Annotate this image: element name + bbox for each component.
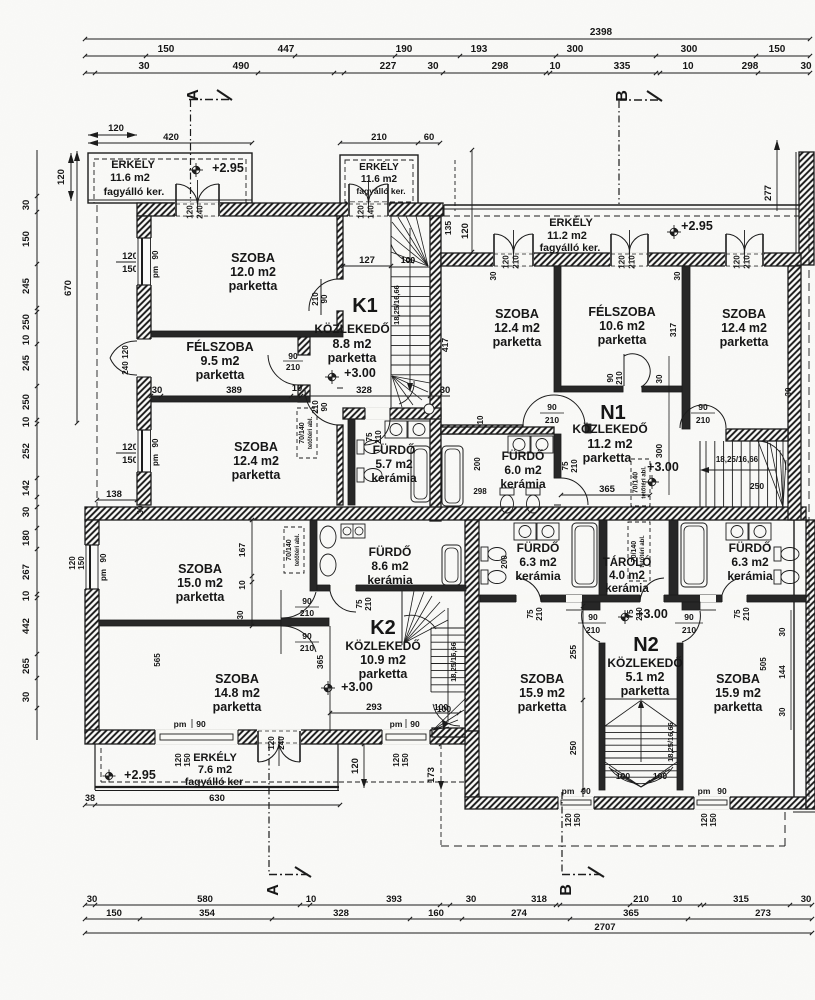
svg-text:pm: pm bbox=[390, 719, 403, 729]
window K2 left bbox=[155, 729, 238, 745]
party wall K1/K2 horizontal band bbox=[85, 507, 806, 520]
window N2 left bbox=[558, 796, 594, 810]
svg-text:14.8 m2: 14.8 m2 bbox=[214, 686, 260, 700]
svg-text:60: 60 bbox=[424, 132, 435, 143]
section line B-B (bottom) bbox=[561, 792, 563, 874]
svg-text:FÜRDŐ: FÜRDŐ bbox=[729, 540, 772, 555]
dim 277 right of balcony3 bbox=[776, 140, 778, 211]
svg-text:328: 328 bbox=[333, 908, 349, 919]
svg-text:138: 138 bbox=[106, 489, 122, 500]
svg-text:210: 210 bbox=[371, 132, 387, 143]
svg-text:2707: 2707 bbox=[594, 922, 615, 933]
svg-text:ERKÉLY: ERKÉLY bbox=[549, 216, 593, 229]
svg-text:kerámia: kerámia bbox=[371, 471, 417, 485]
svg-text:30: 30 bbox=[87, 894, 98, 905]
svg-text:pm: pm bbox=[99, 569, 108, 581]
svg-text:298: 298 bbox=[742, 61, 759, 72]
svg-text:505: 505 bbox=[759, 657, 768, 671]
svg-text:210: 210 bbox=[696, 415, 710, 425]
french door felszoba (left wall) bbox=[136, 339, 152, 377]
svg-text:fagyálló ker.: fagyálló ker. bbox=[540, 242, 601, 254]
svg-text:670: 670 bbox=[63, 280, 74, 296]
svg-text:90: 90 bbox=[717, 786, 727, 796]
roof window 70/140 bbox=[631, 459, 650, 506]
svg-text:TÁROLÓ: TÁROLÓ bbox=[603, 556, 652, 569]
svg-text:75: 75 bbox=[561, 461, 570, 470]
svg-text:90: 90 bbox=[302, 631, 312, 641]
K2 bottom exterior wall bbox=[85, 730, 466, 744]
svg-text:277: 277 bbox=[763, 185, 774, 201]
stair K2 bbox=[401, 591, 403, 645]
svg-text:210: 210 bbox=[364, 597, 373, 611]
svg-text:ERKÉLY: ERKÉLY bbox=[111, 158, 155, 171]
svg-text:210: 210 bbox=[742, 607, 751, 621]
svg-text:30: 30 bbox=[784, 387, 793, 396]
window dim 120/150 (szoba 12.0) bbox=[116, 261, 152, 263]
svg-text:SZOBA: SZOBA bbox=[178, 562, 222, 576]
svg-text:210: 210 bbox=[628, 255, 637, 269]
window szoba 12.4 K1 bbox=[136, 430, 152, 472]
svg-text:120: 120 bbox=[502, 255, 511, 269]
K1 top wall opening: balcony door 2 bbox=[348, 202, 389, 217]
svg-text:30: 30 bbox=[236, 610, 245, 619]
svg-text:240: 240 bbox=[277, 736, 286, 750]
svg-text:kerámia: kerámia bbox=[500, 477, 546, 491]
double washbasin bbox=[726, 523, 748, 540]
top dimension chain bbox=[85, 38, 810, 40]
svg-text:30: 30 bbox=[21, 200, 32, 211]
furdo 8.6 bottom wall bbox=[317, 585, 466, 591]
bathtub bbox=[411, 446, 430, 502]
bathtub bbox=[442, 446, 463, 506]
svg-text:120: 120 bbox=[700, 813, 709, 827]
K2 left exterior wall bbox=[85, 520, 99, 733]
svg-text:12.0 m2: 12.0 m2 bbox=[230, 265, 276, 279]
svg-text:252: 252 bbox=[21, 443, 32, 459]
svg-text:90: 90 bbox=[410, 719, 420, 729]
toilet bbox=[774, 547, 781, 561]
svg-text:100: 100 bbox=[653, 771, 667, 781]
double line bottom right bbox=[806, 808, 815, 810]
svg-text:250: 250 bbox=[568, 741, 578, 755]
svg-text:90: 90 bbox=[547, 402, 557, 412]
svg-text:210: 210 bbox=[512, 255, 521, 269]
felszoba east wall bbox=[298, 337, 310, 355]
hall K1 west wall (upper) bbox=[337, 216, 343, 279]
svg-text:120: 120 bbox=[68, 556, 77, 570]
left dimension chain bbox=[36, 150, 38, 740]
window szoba 12.0 bbox=[136, 238, 152, 285]
svg-text:+3.00: +3.00 bbox=[647, 460, 679, 474]
svg-text:+2.95: +2.95 bbox=[124, 768, 156, 782]
svg-text:150: 150 bbox=[709, 813, 718, 827]
svg-text:A: A bbox=[265, 884, 282, 896]
svg-text:B: B bbox=[614, 90, 631, 102]
wall szoba12.4L / felszoba N1 bbox=[554, 266, 561, 392]
door szoba 12.4 (opening in line x337) bbox=[337, 387, 343, 389]
door opening to furdo 5.7 bbox=[365, 407, 390, 420]
dim 173 dashed bbox=[440, 744, 442, 846]
door furdo 6.3 R bbox=[722, 594, 747, 603]
door tarolo bbox=[640, 594, 664, 603]
dim 420 over balcony1 bbox=[88, 142, 252, 144]
svg-text:10: 10 bbox=[672, 894, 683, 905]
svg-text:+3.00: +3.00 bbox=[636, 607, 668, 621]
svg-text:FÜRDŐ: FÜRDŐ bbox=[369, 544, 412, 559]
svg-text:8.8 m2: 8.8 m2 bbox=[333, 337, 372, 351]
dim row K2 (293) bbox=[330, 712, 459, 714]
svg-text:tetőtéri abl.: tetőtéri abl. bbox=[295, 534, 301, 567]
svg-text:120: 120 bbox=[267, 736, 276, 750]
french door opening N1 balcony bbox=[493, 252, 534, 267]
svg-text:10.9 m2: 10.9 m2 bbox=[360, 653, 406, 667]
svg-text:389: 389 bbox=[226, 385, 242, 396]
dim 120 inside balcony right bbox=[363, 744, 365, 788]
svg-text:210: 210 bbox=[682, 625, 696, 635]
svg-text:335: 335 bbox=[614, 61, 631, 72]
svg-text:9.5 m2: 9.5 m2 bbox=[201, 354, 240, 368]
svg-text:90: 90 bbox=[684, 612, 694, 622]
svg-text:245: 245 bbox=[21, 354, 32, 371]
svg-text:150: 150 bbox=[106, 908, 122, 919]
svg-text:pm: pm bbox=[698, 786, 711, 796]
toilet bbox=[481, 570, 488, 584]
svg-text:parketta: parketta bbox=[598, 333, 648, 347]
bottom dimension chain bbox=[85, 904, 812, 906]
svg-text:parketta: parketta bbox=[232, 468, 282, 482]
svg-text:6.3 m2: 6.3 m2 bbox=[731, 555, 769, 569]
dims 135 / 120 left of balcony3 bbox=[454, 160, 456, 211]
svg-text:210: 210 bbox=[586, 625, 600, 635]
svg-text:10: 10 bbox=[21, 591, 32, 602]
svg-text:30: 30 bbox=[673, 271, 682, 280]
svg-text:150: 150 bbox=[401, 753, 410, 767]
svg-text:FÜRDŐ: FÜRDŐ bbox=[373, 442, 416, 457]
svg-text:318: 318 bbox=[531, 894, 547, 905]
svg-text:kerámia: kerámia bbox=[367, 573, 413, 587]
svg-text:10: 10 bbox=[292, 383, 303, 394]
balcony erkely 11.6 (top-left) outer edge bbox=[88, 153, 252, 203]
window K2 right bbox=[382, 729, 430, 745]
svg-text:273: 273 bbox=[755, 908, 771, 919]
dim 138 bbox=[97, 499, 137, 501]
svg-text:parketta: parketta bbox=[196, 368, 246, 382]
vertical dims right rooms bbox=[790, 610, 792, 730]
svg-text:142: 142 bbox=[21, 480, 32, 496]
svg-text:210: 210 bbox=[311, 400, 320, 414]
section line A-A (bottom) bbox=[268, 744, 270, 874]
svg-text:75: 75 bbox=[355, 599, 364, 608]
svg-text:SZOBA: SZOBA bbox=[231, 251, 275, 265]
svg-text:SZOBA: SZOBA bbox=[495, 307, 539, 321]
svg-text:2398: 2398 bbox=[590, 27, 613, 38]
svg-text:90: 90 bbox=[698, 402, 708, 412]
stair K1 bbox=[390, 216, 392, 407]
svg-text:30: 30 bbox=[778, 627, 787, 636]
svg-text:SZOBA: SZOBA bbox=[234, 440, 278, 454]
svg-text:pm: pm bbox=[151, 454, 160, 466]
svg-text:167: 167 bbox=[237, 543, 247, 557]
svg-text:300: 300 bbox=[567, 44, 584, 55]
svg-text:328: 328 bbox=[356, 385, 372, 396]
svg-text:5.1 m2: 5.1 m2 bbox=[626, 670, 665, 684]
svg-text:190: 190 bbox=[396, 44, 413, 55]
svg-text:580: 580 bbox=[197, 894, 213, 905]
svg-text:38: 38 bbox=[85, 793, 95, 803]
svg-text:90: 90 bbox=[196, 719, 206, 729]
svg-text:10: 10 bbox=[549, 61, 561, 72]
bathtub bbox=[681, 523, 707, 587]
svg-text:18,25/16,66: 18,25/16,66 bbox=[392, 285, 401, 325]
N2 bottom exterior wall bbox=[465, 797, 806, 809]
svg-text:210: 210 bbox=[570, 459, 579, 473]
svg-text:490: 490 bbox=[233, 61, 250, 72]
svg-text:265: 265 bbox=[21, 657, 32, 674]
svg-text:FÉLSZOBA: FÉLSZOBA bbox=[588, 304, 655, 319]
svg-text:120: 120 bbox=[564, 813, 573, 827]
svg-text:210: 210 bbox=[743, 255, 752, 269]
svg-text:210: 210 bbox=[535, 607, 544, 621]
roof window 70/140 bbox=[628, 522, 650, 581]
window szoba 15.0 bbox=[84, 545, 100, 589]
dim 210/60 over balcony2 bbox=[340, 142, 418, 144]
svg-text:30: 30 bbox=[427, 61, 439, 72]
svg-text:250: 250 bbox=[21, 394, 32, 410]
svg-text:10: 10 bbox=[21, 417, 32, 428]
svg-text:K1: K1 bbox=[352, 295, 378, 317]
door felszoba bbox=[268, 355, 298, 385]
svg-text:267: 267 bbox=[21, 564, 32, 580]
wall felszoba / szoba12.4R N1 bbox=[682, 266, 690, 429]
svg-text:parketta: parketta bbox=[213, 700, 263, 714]
svg-text:K2: K2 bbox=[370, 617, 396, 639]
svg-text:parketta: parketta bbox=[518, 700, 568, 714]
svg-text:173: 173 bbox=[426, 767, 437, 783]
svg-text:393: 393 bbox=[386, 894, 402, 905]
svg-text:150: 150 bbox=[77, 556, 86, 570]
svg-text:120: 120 bbox=[186, 205, 195, 219]
balcony erkely 11.6 (second, top) outer edge bbox=[340, 155, 418, 204]
section line B-B (top) bbox=[618, 101, 620, 204]
svg-text:12.4 m2: 12.4 m2 bbox=[721, 321, 767, 335]
svg-text:120: 120 bbox=[733, 255, 742, 269]
bathroom row walls N2 bbox=[599, 520, 607, 600]
svg-text:kerámia: kerámia bbox=[605, 583, 649, 595]
svg-text:315: 315 bbox=[733, 894, 750, 905]
svg-text:365: 365 bbox=[315, 655, 325, 669]
svg-text:70/140: 70/140 bbox=[286, 539, 293, 561]
door szoba 12.0 bbox=[337, 278, 343, 280]
step wall bottom middle bbox=[465, 731, 479, 797]
svg-text:150: 150 bbox=[21, 231, 32, 247]
svg-text:417: 417 bbox=[440, 338, 450, 352]
svg-text:100: 100 bbox=[401, 255, 415, 265]
svg-text:120: 120 bbox=[108, 123, 124, 134]
svg-text:120: 120 bbox=[618, 255, 627, 269]
svg-text:parketta: parketta bbox=[714, 700, 764, 714]
svg-text:210: 210 bbox=[311, 292, 320, 306]
svg-text:5.7 m2: 5.7 m2 bbox=[375, 457, 413, 471]
svg-text:30: 30 bbox=[21, 507, 32, 518]
svg-text:300: 300 bbox=[681, 44, 698, 55]
dashed right neighbour outline bbox=[808, 218, 810, 797]
dashed outline left side bbox=[96, 205, 98, 507]
svg-text:90: 90 bbox=[606, 373, 615, 382]
svg-text:365: 365 bbox=[623, 908, 640, 919]
svg-text:+2.95: +2.95 bbox=[681, 219, 713, 233]
svg-text:30: 30 bbox=[800, 61, 812, 72]
felszoba N1 bottom wall + door bbox=[561, 386, 623, 392]
svg-text:15.9 m2: 15.9 m2 bbox=[715, 686, 761, 700]
section line A-A (top) bbox=[190, 100, 192, 204]
svg-text:120: 120 bbox=[122, 251, 138, 262]
svg-text:ERKÉLY: ERKÉLY bbox=[359, 160, 399, 173]
roof window 70/140 bbox=[284, 527, 304, 573]
svg-text:90: 90 bbox=[320, 294, 329, 303]
french door balcony1 bbox=[175, 184, 177, 216]
svg-text:240: 240 bbox=[121, 361, 130, 375]
svg-text:parketta: parketta bbox=[583, 451, 633, 465]
svg-text:parketta: parketta bbox=[359, 667, 409, 681]
svg-text:11.2 m2: 11.2 m2 bbox=[547, 230, 587, 242]
svg-text:N2: N2 bbox=[633, 634, 659, 656]
svg-text:A: A bbox=[185, 89, 202, 101]
svg-text:210: 210 bbox=[633, 894, 649, 905]
svg-text:SZOBA: SZOBA bbox=[716, 672, 760, 686]
dim 127 (K1 lobby) bbox=[343, 265, 391, 267]
svg-text:11.2 m2: 11.2 m2 bbox=[587, 437, 632, 451]
toilet bbox=[481, 547, 488, 561]
svg-text:70/140: 70/140 bbox=[633, 472, 640, 494]
balcony erkely 11.2 (top right) bbox=[444, 204, 803, 206]
svg-text:300: 300 bbox=[654, 444, 664, 458]
svg-text:pm: pm bbox=[174, 719, 187, 729]
svg-text:160: 160 bbox=[428, 908, 444, 919]
neighbour wall stub top right bbox=[799, 152, 814, 265]
roof window 70/140 bbox=[297, 408, 317, 458]
door furdo 6.3 L bbox=[516, 594, 541, 603]
door N2 hall to szoba L bbox=[582, 611, 600, 642]
svg-text:200: 200 bbox=[473, 457, 482, 471]
svg-text:30: 30 bbox=[440, 385, 451, 396]
svg-text:120: 120 bbox=[56, 169, 67, 185]
french door opening N1 balcony bbox=[610, 252, 649, 267]
svg-text:274: 274 bbox=[511, 908, 528, 919]
stair N2 bbox=[605, 698, 677, 700]
svg-text:150: 150 bbox=[122, 264, 138, 275]
svg-text:150: 150 bbox=[769, 44, 786, 55]
thin wall szoba12.0 / felszoba bbox=[151, 331, 343, 337]
svg-text:10: 10 bbox=[237, 580, 247, 590]
felszoba east wall lower bbox=[298, 385, 310, 402]
N2 right exterior wall bbox=[793, 520, 795, 797]
svg-text:10: 10 bbox=[682, 61, 694, 72]
svg-text:245: 245 bbox=[21, 277, 32, 294]
bathrooms bottom wall N2 bbox=[480, 595, 806, 602]
svg-text:11.6 m2: 11.6 m2 bbox=[110, 172, 150, 184]
svg-text:30: 30 bbox=[489, 271, 498, 280]
svg-text:630: 630 bbox=[209, 793, 225, 804]
svg-text:317: 317 bbox=[668, 323, 678, 337]
svg-text:30: 30 bbox=[466, 894, 477, 905]
svg-text:442: 442 bbox=[21, 618, 32, 634]
svg-text:10.6 m2: 10.6 m2 bbox=[599, 319, 645, 333]
svg-text:15.9 m2: 15.9 m2 bbox=[519, 686, 565, 700]
window dim 120/150 (szoba 12.4) bbox=[116, 452, 152, 454]
furdo 5.7 west wall bbox=[348, 419, 355, 505]
svg-text:parketta: parketta bbox=[720, 335, 770, 349]
svg-text:fagyálló ker: fagyálló ker bbox=[185, 776, 243, 788]
K1 stair bottom + hall bottom wall bbox=[343, 408, 441, 419]
K1 left exterior wall bbox=[137, 216, 151, 505]
svg-text:150: 150 bbox=[158, 44, 175, 55]
svg-text:120: 120 bbox=[122, 442, 138, 453]
svg-text:10: 10 bbox=[476, 415, 485, 424]
svg-text:298: 298 bbox=[492, 61, 509, 72]
svg-text:tetőtéri abl.: tetőtéri abl. bbox=[308, 417, 314, 450]
svg-text:193: 193 bbox=[471, 44, 488, 55]
toilet bbox=[774, 570, 781, 584]
hall K1 west wall (mid) bbox=[337, 311, 343, 331]
svg-text:30: 30 bbox=[778, 707, 787, 716]
svg-text:293: 293 bbox=[366, 702, 382, 713]
svg-text:11.6 m2: 11.6 m2 bbox=[361, 174, 398, 185]
svg-text:KÖZLEKEDŐ: KÖZLEKEDŐ bbox=[607, 655, 682, 670]
stair N1 bbox=[699, 441, 701, 507]
door K2 to szoba 15.0 bbox=[281, 592, 316, 618]
dim row N1 (365) bbox=[561, 494, 650, 496]
svg-text:30: 30 bbox=[655, 374, 664, 383]
svg-text:18,25/16,66: 18,25/16,66 bbox=[716, 455, 759, 464]
svg-text:298: 298 bbox=[473, 487, 487, 496]
svg-text:6.3 m2: 6.3 m2 bbox=[519, 555, 557, 569]
svg-text:SZOBA: SZOBA bbox=[215, 672, 259, 686]
svg-text:FÜRDŐ: FÜRDŐ bbox=[502, 448, 545, 463]
dashed terrace line right of balcony bbox=[339, 781, 465, 783]
balcony erkely 7.6 (bottom) bbox=[94, 744, 96, 790]
svg-text:ERKÉLY: ERKÉLY bbox=[193, 751, 237, 764]
K1 top wall opening: balcony door 1 bbox=[175, 202, 220, 217]
svg-text:SZOBA: SZOBA bbox=[520, 672, 564, 686]
dim 120 over balcony1 bbox=[88, 134, 137, 136]
svg-text:4.0 m2: 4.0 m2 bbox=[609, 570, 645, 582]
svg-text:365: 365 bbox=[599, 484, 616, 495]
svg-text:135: 135 bbox=[443, 221, 453, 235]
svg-text:B: B bbox=[558, 884, 575, 896]
svg-text:KÖZLEKEDŐ: KÖZLEKEDŐ bbox=[572, 421, 647, 436]
svg-text:+3.00: +3.00 bbox=[341, 680, 373, 694]
svg-text:30: 30 bbox=[136, 505, 145, 514]
svg-text:120: 120 bbox=[392, 753, 401, 767]
toilet bbox=[500, 488, 514, 495]
bathtub bbox=[442, 545, 461, 585]
svg-text:10: 10 bbox=[21, 335, 32, 346]
svg-text:15.0 m2: 15.0 m2 bbox=[177, 576, 223, 590]
svg-text:KÖZLEKEDŐ: KÖZLEKEDŐ bbox=[314, 321, 389, 336]
svg-text:N1: N1 bbox=[600, 402, 626, 424]
bathtub bbox=[572, 523, 597, 587]
N2 hall side walls bbox=[566, 595, 582, 602]
svg-text:447: 447 bbox=[278, 44, 295, 55]
svg-text:pm: pm bbox=[562, 786, 575, 796]
svg-text:210: 210 bbox=[545, 415, 559, 425]
svg-text:210: 210 bbox=[615, 371, 624, 385]
svg-text:7.6 m2: 7.6 m2 bbox=[198, 764, 232, 776]
furdo 8.6 west wall bbox=[310, 520, 317, 591]
K1 top exterior wall bbox=[137, 203, 443, 216]
svg-text:75: 75 bbox=[526, 609, 535, 618]
svg-text:150: 150 bbox=[573, 813, 582, 827]
